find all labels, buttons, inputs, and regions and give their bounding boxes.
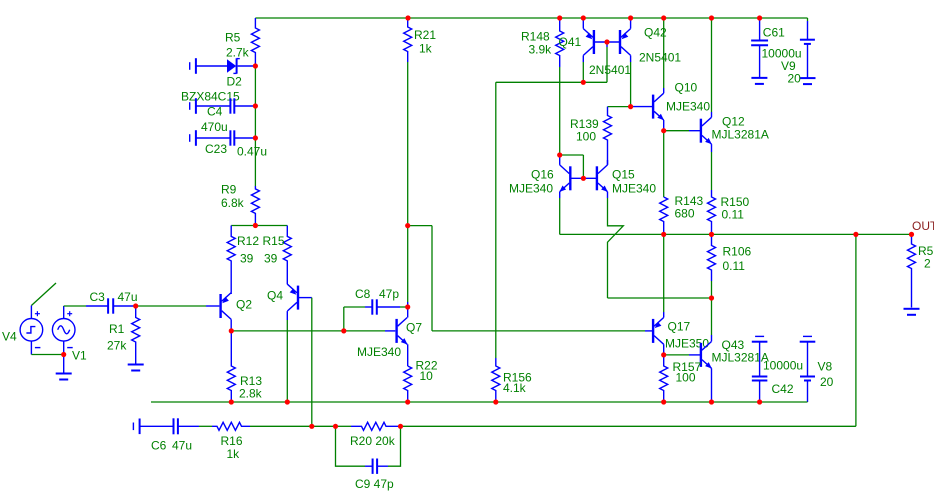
node Q41 collector [581, 80, 586, 85]
label 2.8k [239, 387, 263, 401]
node OUT/R5 load [909, 232, 914, 237]
label Q12 [722, 115, 745, 129]
svg-text:10000u: 10000u [763, 359, 803, 373]
node R5/D2 [253, 63, 258, 68]
label OUT [912, 219, 934, 233]
svg-text:OUT: OUT [912, 219, 934, 233]
label C23 [205, 142, 227, 156]
node Q4 collector/rail [285, 399, 290, 404]
svg-text:2N5401: 2N5401 [589, 63, 631, 77]
wire C9 branch right [388, 426, 401, 466]
label R16 [221, 434, 243, 448]
svg-text:C6: C6 [151, 439, 167, 453]
svg-text:V4: V4 [2, 330, 17, 344]
node feedback tap [853, 232, 858, 237]
wire Q15 emitter run [608, 297, 712, 299]
node C3/R1 [133, 303, 138, 308]
capacitor C23 open end [190, 130, 196, 146]
wire bases tap [560, 155, 584, 178]
capacitor C9 47p [365, 459, 388, 474]
label 3.9k [529, 43, 553, 57]
capacitor C8 47p [365, 299, 408, 314]
label 2N5401 Q42 [639, 51, 681, 65]
label BZX84C15 [181, 90, 240, 104]
wire Q17 collector [663, 344, 665, 355]
node V1 minus [61, 352, 66, 357]
svg-text:R5: R5 [225, 31, 241, 45]
svg-text:R1: R1 [109, 322, 125, 336]
label 47p C8 [379, 287, 399, 301]
node Q43/rail [709, 399, 714, 404]
svg-text:39: 39 [264, 252, 278, 266]
label C4 [207, 105, 223, 119]
svg-text:3.9k: 3.9k [529, 43, 553, 57]
wire bases riser [606, 42, 608, 82]
wire R21 to C8 node [407, 226, 409, 307]
wire Q10 emitter [663, 120, 665, 131]
label Q4 [267, 289, 283, 303]
label R15 [263, 234, 285, 248]
svg-text:R148: R148 [521, 30, 550, 44]
wire V1 ground stem [63, 355, 65, 374]
capacitor C3 47u [108, 298, 136, 313]
node C8 tap [341, 328, 346, 333]
wire feedback run [401, 425, 856, 427]
svg-text:2N5401: 2N5401 [639, 51, 681, 65]
wire Q43 emitter [711, 368, 713, 402]
capacitor C6 open end [133, 419, 139, 435]
svg-text:2.8k: 2.8k [239, 387, 263, 401]
svg-text:C4: C4 [207, 105, 223, 119]
wire V- bottom rail [151, 401, 808, 403]
label Q2 [236, 298, 252, 312]
wire Q17 emitter riser [663, 234, 665, 317]
label R1 [109, 322, 125, 336]
wire mirror output run [496, 81, 607, 83]
label 470u [201, 120, 228, 134]
ground V1 [56, 374, 72, 380]
label V1 [72, 349, 87, 363]
wire Q10 base [631, 106, 654, 108]
node Q17 collector [661, 352, 666, 357]
ground R5 load [904, 309, 920, 315]
wire bias to R9 [254, 138, 256, 186]
svg-text:MJE350: MJE350 [665, 337, 709, 351]
transistor Q41 [583, 29, 594, 56]
transistor Q17 [653, 318, 664, 345]
label C3 [90, 290, 106, 304]
resistor R22 10 [404, 366, 412, 402]
label 4.1k [503, 381, 527, 395]
label C42 [772, 382, 794, 396]
svg-text:47u: 47u [118, 290, 138, 304]
svg-text:100: 100 [576, 130, 596, 144]
wire Q7 emitter [407, 344, 409, 366]
node top-rail/Q41 emitter [581, 15, 586, 20]
minus V1 [67, 347, 73, 349]
wire Q16 emitter riser [559, 192, 561, 235]
label V8 [818, 360, 833, 374]
label R12 [237, 234, 259, 248]
label MJL3281A Q12 [712, 128, 769, 142]
capacitor C4 470u [196, 98, 256, 113]
label V4 [2, 330, 17, 344]
label 0.11 R106 [723, 259, 746, 273]
wire V1 to C3 [64, 305, 108, 307]
source V9 20 [800, 21, 815, 78]
label 10000u C61 [762, 47, 802, 61]
transistor Q4 [287, 284, 298, 311]
wire R21 down [407, 62, 409, 226]
transistor Q43 [701, 342, 712, 369]
node top-rail/C61 [757, 15, 762, 20]
minus V4 [35, 347, 41, 349]
label Q10 [675, 81, 698, 95]
node Q42 collector/Q10 base [628, 104, 633, 109]
wire R156 riser [495, 82, 497, 358]
svg-text:R106: R106 [723, 245, 752, 259]
label R157 [673, 360, 702, 374]
wire Q16-Q15 bases [570, 177, 597, 179]
label MJE340 Q7 [357, 345, 401, 359]
svg-text:R16: R16 [221, 434, 243, 448]
label 20 V8 [820, 375, 834, 389]
ground R1 [128, 365, 144, 371]
label C61 [763, 26, 785, 40]
resistor R9 6.8k [251, 186, 259, 226]
wire Q12 collector [711, 18, 713, 117]
transistor Q16 [559, 165, 570, 192]
label R143 [675, 194, 704, 208]
node R143/OUT [661, 232, 666, 237]
label R9 [221, 183, 237, 197]
wire C6 to R16 [199, 425, 212, 427]
label Q17 [668, 320, 691, 334]
node top-rail/Q42 emitter [628, 15, 633, 20]
label R20 20k [350, 434, 396, 448]
label 10000u C42 [763, 359, 803, 373]
svg-text:Q12: Q12 [722, 115, 745, 129]
node R157/rail [661, 399, 666, 404]
node Q10 emitter [661, 128, 666, 133]
svg-text:27k: 27k [107, 339, 127, 353]
svg-text:C42: C42 [772, 382, 794, 396]
node R150/OUT [709, 232, 714, 237]
svg-text:2: 2 [924, 257, 931, 271]
source V1 [52, 306, 75, 355]
wire Q4 base riser [311, 298, 313, 427]
wire Q4 collector [286, 311, 288, 402]
node C23/bias [253, 135, 258, 140]
resistor R148 3.9k [556, 18, 564, 67]
wire R148 to Q16 [559, 67, 561, 155]
wire Q12 base [664, 130, 701, 132]
resistor R139 100 [604, 107, 612, 165]
node top-rail/Q10 collector [661, 15, 666, 20]
label 47u C3 [118, 290, 138, 304]
capacitor C61 10000u [751, 18, 768, 78]
label R106 [723, 245, 752, 259]
node R106/Q43 [709, 295, 714, 300]
svg-text:V8: V8 [818, 360, 833, 374]
label Q43 [722, 338, 745, 352]
transistor Q10 [653, 93, 664, 120]
label Q16 [531, 168, 554, 182]
svg-text:47p: 47p [379, 287, 399, 301]
wire Q43 base [664, 354, 701, 356]
label R139 [570, 117, 599, 131]
label C9 47p [355, 477, 394, 491]
transistor Q12 [701, 117, 712, 144]
wire R20 left lead [336, 425, 352, 427]
svg-text:C23: C23 [205, 142, 227, 156]
label MJL3281A Q43 [712, 351, 769, 365]
wire Q41 emitter [582, 18, 584, 29]
wire Q43 collector [711, 298, 713, 341]
svg-text:C61: C61 [763, 26, 785, 40]
label R156 [503, 371, 532, 385]
label MJE340 Q15 [612, 182, 656, 196]
label Q42 [644, 26, 667, 40]
label 27k [107, 339, 127, 353]
svg-text:C3: C3 [90, 290, 106, 304]
node C8/Q7 collector [405, 304, 410, 309]
wire branch to Q17-base riser [408, 226, 432, 331]
source V4 [20, 306, 43, 355]
label R5 load [918, 244, 934, 258]
resistor R150 0.11 [708, 190, 716, 234]
svg-text:Q2: Q2 [236, 298, 252, 312]
label 100 R157 [676, 371, 696, 385]
wire Q41 collector [582, 55, 584, 82]
label 2 [924, 257, 931, 271]
source V8 open end [800, 336, 816, 341]
svg-text:Q17: Q17 [668, 320, 691, 334]
wire OUT line [560, 233, 912, 235]
svg-text:R9: R9 [221, 183, 237, 197]
label MJE350 [665, 337, 709, 351]
node Q16/Q15 bases [581, 176, 586, 181]
wire Q16 collector [559, 155, 561, 165]
wire C9 branch left [336, 426, 366, 466]
diode D2 anode wire [196, 65, 227, 67]
svg-text:R21: R21 [414, 28, 436, 42]
wire Q41-Q42 bases [594, 41, 620, 43]
wire Q2-collector to Q7-base [231, 330, 395, 332]
svg-text:R12: R12 [237, 234, 259, 248]
label MJE340 Q10 [666, 100, 710, 114]
node bases [604, 39, 609, 44]
svg-text:Q10: Q10 [675, 81, 698, 95]
wire rail to V9 [807, 18, 809, 21]
svg-text:R20 20k: R20 20k [350, 434, 396, 448]
label 39 left [240, 252, 254, 266]
label 10 [420, 369, 434, 383]
wire Q15 emitter jog [608, 192, 624, 298]
wire Q10 collector [663, 18, 665, 93]
ground V9 [800, 78, 816, 84]
svg-text:V1: V1 [72, 349, 87, 363]
wire C8 branch [344, 307, 365, 331]
node top-rail/R21 [405, 15, 410, 20]
svg-text:Q15: Q15 [612, 168, 635, 182]
transistor Q42 [620, 29, 631, 56]
plus V1 [67, 311, 72, 316]
svg-text:MJE340: MJE340 [357, 345, 401, 359]
resistor R106 0.11 [708, 234, 716, 281]
resistor R156 4.1k [492, 358, 500, 402]
label C8 [355, 287, 371, 301]
resistor R13 2.8k [227, 331, 235, 402]
node R20 left [333, 424, 338, 429]
label 680 [675, 207, 695, 221]
node Q2 collector [229, 328, 234, 333]
label MJE340 Q16 [509, 182, 553, 196]
label Q15 [612, 168, 635, 182]
wire V+ top rail [255, 17, 807, 19]
wire Q42 collector [630, 55, 632, 106]
label Q7 [406, 321, 422, 335]
label R13 [240, 374, 262, 388]
label 20 V9 [788, 72, 802, 86]
label 2N5401 Q41 [589, 63, 631, 77]
wire bias node [254, 66, 256, 138]
svg-text:Q4: Q4 [267, 289, 283, 303]
wire Q12 emitter [711, 144, 713, 190]
svg-text:100: 100 [676, 371, 696, 385]
resistor R143 680 [660, 197, 668, 234]
svg-text:680: 680 [675, 207, 695, 221]
svg-text:Q16: Q16 [531, 168, 554, 182]
svg-text:47u: 47u [172, 439, 192, 453]
node R156/rail [493, 399, 498, 404]
wire R106 to node [711, 281, 713, 298]
svg-text:D2: D2 [227, 75, 243, 89]
resistor R1 27k [132, 306, 140, 364]
label C6 [151, 439, 167, 453]
label 1k R16 [227, 447, 241, 461]
label Q41 [559, 35, 582, 49]
wire switch stub [31, 283, 56, 306]
svg-text:470u: 470u [201, 120, 228, 134]
capacitor C6 47u [139, 418, 199, 434]
diode D2 BZX84C15 [227, 58, 255, 73]
label 39 right [264, 252, 278, 266]
resistor R12 39 [227, 226, 235, 293]
svg-text:0.11: 0.11 [723, 259, 746, 273]
svg-text:MJE340: MJE340 [612, 182, 656, 196]
capacitor C4 open end [190, 98, 196, 114]
svg-text:C9 47p: C9 47p [355, 477, 394, 491]
label R21 [414, 28, 436, 42]
label 47u C6 [172, 439, 192, 453]
label 0.47u [237, 145, 267, 159]
node R13/rail [229, 399, 234, 404]
wire fb node to R20 [312, 425, 336, 427]
node fb/Q4 base [309, 424, 314, 429]
svg-text:1k: 1k [419, 42, 433, 56]
svg-text:4.1k: 4.1k [503, 381, 527, 395]
wire Q7 collector [407, 307, 409, 318]
label 2.7k [226, 46, 250, 60]
svg-text:20: 20 [788, 72, 802, 86]
svg-text:Q41: Q41 [559, 35, 582, 49]
wire Q17 base run [432, 330, 652, 332]
transistor Q2 [221, 293, 232, 320]
svg-text:0.11: 0.11 [722, 208, 745, 222]
resistor R5 load 2 [908, 234, 916, 307]
svg-text:1k: 1k [227, 447, 241, 461]
svg-text:MJE340: MJE340 [666, 100, 710, 114]
svg-text:20: 20 [820, 375, 834, 389]
svg-text:MJE340: MJE340 [509, 182, 553, 196]
capacitor C42 10000u [752, 342, 768, 402]
svg-text:10: 10 [420, 369, 434, 383]
resistor R21 1k [404, 18, 412, 62]
node R21/branch [405, 223, 410, 228]
wire R139 top [608, 106, 631, 108]
node C42/rail [757, 399, 762, 404]
wire feedback riser [855, 234, 857, 426]
svg-text:MJL3281A: MJL3281A [712, 128, 769, 142]
resistor R157 100 [660, 355, 668, 402]
wire R143 drop [663, 131, 665, 197]
transistor Q15 [597, 165, 608, 192]
svg-text:6.8k: 6.8k [221, 196, 245, 210]
label 6.8k [221, 196, 245, 210]
wire Q42 emitter [630, 18, 632, 29]
svg-text:Q7: Q7 [406, 321, 422, 335]
label R148 [521, 30, 550, 44]
source V8 20 [800, 342, 815, 402]
wire V4-V1 bottom [31, 354, 63, 356]
node R22/rail [405, 399, 410, 404]
transistor Q7 [397, 318, 408, 345]
wire Q2 emitter [230, 293, 232, 294]
diode D2 open end [190, 58, 196, 74]
capacitor C23 0.47u [196, 130, 256, 145]
wire Q2 collector [230, 319, 232, 331]
label 0.11 R150 [722, 208, 745, 222]
wire Q15 collector [607, 160, 609, 165]
label R22 [416, 359, 438, 373]
wire R16 to fb node [250, 425, 312, 427]
node top-rail/R148 [557, 15, 562, 20]
wire Q4 base lead [298, 297, 312, 299]
capacitor C42 open end [752, 336, 768, 341]
node C4/bias [253, 103, 258, 108]
resistor R16 1k [212, 422, 250, 430]
svg-text:R15: R15 [263, 234, 285, 248]
ground C61 [751, 78, 767, 84]
node R9/tail [253, 223, 258, 228]
wire LTP tail rail [231, 225, 287, 227]
resistor R5 2.7k [251, 18, 259, 66]
node R20 right [398, 424, 403, 429]
svg-text:C8: C8 [355, 287, 371, 301]
svg-text:2.7k: 2.7k [226, 46, 250, 60]
label 1k R21 [419, 42, 433, 56]
resistor R15 39 [283, 226, 291, 285]
node R148/Q16 [557, 152, 562, 157]
label 100 R139 [576, 130, 596, 144]
label R150 [721, 195, 750, 209]
resistor R20 20k [351, 422, 401, 430]
node top-rail/Q12 collector [709, 15, 714, 20]
svg-text:0.47u: 0.47u [237, 145, 267, 159]
label V9 [781, 59, 796, 73]
wire input to Q2 base [136, 305, 220, 307]
